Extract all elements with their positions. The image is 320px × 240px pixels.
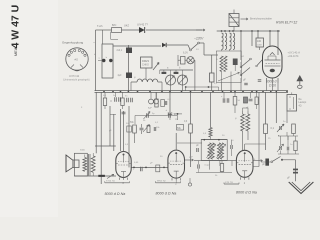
svg-text:CHKO: CHKO [142,64,149,67]
svg-text:~220V: ~220V [194,37,204,41]
svg-text:DM23: DM23 [142,59,149,63]
svg-text:Gegenkopplung: Gegenkopplung [62,41,84,45]
svg-text:0,1µF: 0,1µF [205,165,211,167]
svg-text:5000 d Ω Na: 5000 d Ω Na [105,192,126,196]
svg-text:#O: #O [75,58,78,62]
svg-text:2x0,1: 2x0,1 [117,50,123,52]
svg-text:STK 7Ω: STK 7Ω [225,182,233,184]
svg-text:5000: 5000 [80,150,86,152]
svg-text:ST14 7Ω: ST14 7Ω [106,181,115,183]
svg-text:(Unteransicht gespiegelt): (Unteransicht gespiegelt) [63,79,90,82]
svg-text:T-Ah: T-Ah [97,24,103,28]
svg-text:~: ~ [93,41,95,45]
svg-text:6,3V: 6,3V [183,52,188,55]
svg-text:Bereichsumschalter: Bereichsumschalter [250,18,272,21]
svg-text:B/C: B/C [112,23,116,27]
svg-text:4 W 47 U: 4 W 47 U [10,5,22,49]
svg-text:RUN ELT=12: RUN ELT=12 [276,21,297,25]
svg-text:+: + [94,52,96,56]
svg-text:U4Z: U4Z [124,24,129,28]
svg-text:4µF: 4µF [118,75,123,77]
svg-text:8000 d Ω Na: 8000 d Ω Na [236,191,257,195]
svg-text:Lautspr.: Lautspr. [299,101,308,104]
svg-text:U/Y42 7?: U/Y42 7? [137,23,148,27]
svg-text:0,1: 0,1 [271,127,275,130]
svg-text:µµF: µµF [189,157,194,159]
svg-text:4Ω: 4Ω [299,105,302,107]
svg-text:8000 d Ω Na: 8000 d Ω Na [156,192,177,196]
svg-text:WKS 7Ω: WKS 7Ω [157,181,166,183]
svg-text:U/YN 42: U/YN 42 [69,74,80,78]
svg-text:8µF: 8µF [148,108,152,110]
svg-text:Ω 16: Ω 16 [269,83,276,87]
svg-text:100: 100 [257,40,262,43]
svg-text:+U2-1174: +U2-1174 [288,55,299,58]
svg-text:2M: 2M [175,119,178,121]
